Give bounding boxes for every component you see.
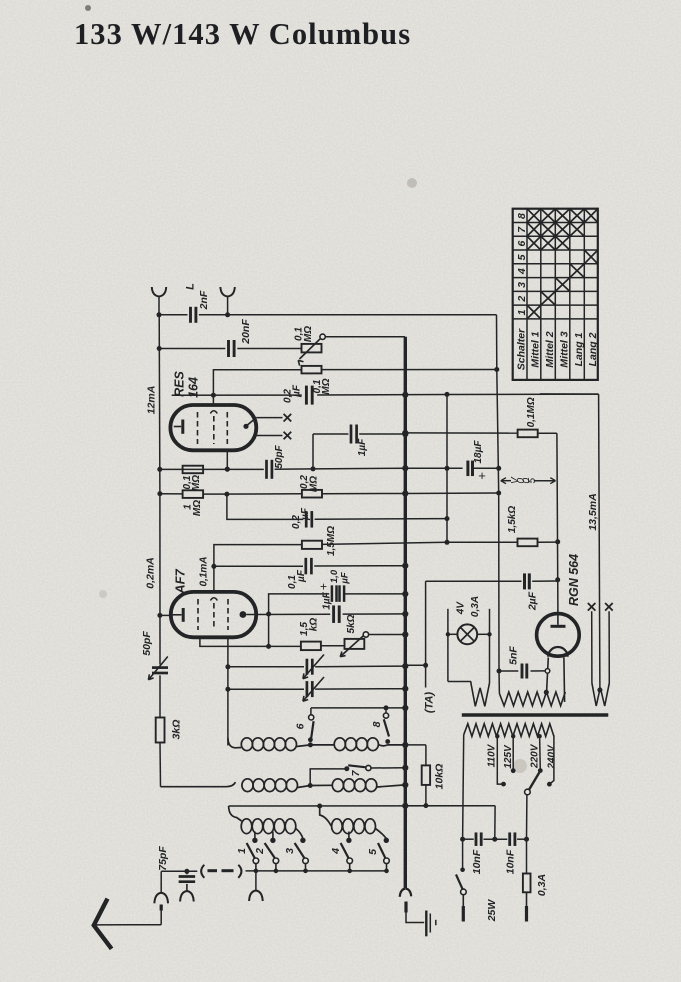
tap 240V xyxy=(547,735,558,786)
svg-text:125V: 125V xyxy=(503,744,514,769)
svg-text:MΩ: MΩ xyxy=(309,476,320,492)
capacitor 0,1µF xyxy=(287,558,311,589)
wire antenna top xyxy=(157,312,497,317)
switch 8 xyxy=(371,708,390,744)
svg-text:MΩ: MΩ xyxy=(192,500,203,516)
svg-text:0,2mA: 0,2mA xyxy=(145,557,157,589)
winding HT secondary xyxy=(499,690,565,706)
antenna arrow xyxy=(94,899,112,949)
svg-text:50pF: 50pF xyxy=(274,444,285,468)
wire grid2 row xyxy=(227,494,447,519)
ground plug xyxy=(406,902,424,923)
lamp 4V 0,3A xyxy=(456,596,482,644)
svg-text:MΩ: MΩ xyxy=(303,326,314,342)
heater lead x1 xyxy=(256,414,291,422)
capacitor 1,0µF electrolytic xyxy=(320,569,351,602)
svg-text:1µF: 1µF xyxy=(357,438,368,456)
svg-text:2: 2 xyxy=(516,296,528,303)
wire detector row xyxy=(229,803,496,809)
svg-text:MΩ: MΩ xyxy=(191,475,202,491)
earth socket xyxy=(255,871,257,890)
switch 1 xyxy=(236,832,259,874)
wire 0,1MΩ feed xyxy=(402,430,517,436)
band switch table xyxy=(513,209,599,380)
svg-text:13,5mA: 13,5mA xyxy=(587,493,599,530)
resistor 1,5kΩ bias xyxy=(299,618,321,650)
capacitor 1µF coupling xyxy=(351,425,368,457)
ground symbol xyxy=(426,911,436,937)
resistor 0,2MΩ xyxy=(299,475,322,498)
resistor 0,1MΩ decoupling xyxy=(182,466,203,491)
wire 544 row xyxy=(211,542,557,592)
coil antenna A2 xyxy=(308,738,409,751)
svg-text:5nF: 5nF xyxy=(508,646,520,665)
svg-text:3kΩ: 3kΩ xyxy=(171,720,183,740)
title 133 W/143 W Columbus xyxy=(74,17,411,51)
resistor 0,1MΩ supply xyxy=(518,397,538,437)
svg-text:Mittel 3: Mittel 3 xyxy=(558,331,570,367)
wire switch top row xyxy=(311,705,409,711)
svg-text:10nF: 10nF xyxy=(505,849,517,874)
wire HT rail xyxy=(496,370,501,694)
resistor 0,1MΩ grid xyxy=(302,366,333,395)
transformer core xyxy=(462,713,609,717)
wire mains row xyxy=(460,837,529,842)
wire left rail xyxy=(157,315,162,787)
label 0,1mA xyxy=(199,556,210,586)
wire grid RES164 xyxy=(211,370,497,405)
socket A fork xyxy=(154,871,168,903)
svg-text:50pF: 50pF xyxy=(141,631,153,656)
coil C1 xyxy=(229,806,303,839)
svg-text:4V: 4V xyxy=(456,601,467,616)
switch 3 xyxy=(284,838,308,874)
tap 220V selector xyxy=(525,734,543,839)
switch 7 xyxy=(310,765,408,786)
capacitor 0,2µF grid xyxy=(291,507,312,529)
svg-text:0,1MΩ: 0,1MΩ xyxy=(526,397,537,427)
svg-text:8: 8 xyxy=(371,721,383,727)
svg-text:164: 164 xyxy=(187,377,201,398)
svg-text:(TA): (TA) xyxy=(424,692,436,714)
svg-text:0,3A: 0,3A xyxy=(470,596,481,617)
svg-text:Mittel 1: Mittel 1 xyxy=(530,331,542,367)
coil B1 xyxy=(161,779,311,792)
svg-text:220V: 220V xyxy=(530,743,541,769)
tap 125V xyxy=(503,734,515,773)
svg-text:L: L xyxy=(185,283,197,290)
svg-text:1µF: 1µF xyxy=(322,591,333,609)
svg-text:Schalter: Schalter xyxy=(516,328,528,370)
filament leads xyxy=(544,658,565,703)
wire cathode RES164 xyxy=(225,450,230,471)
socket A2 fork xyxy=(180,891,194,902)
svg-text:1,0: 1,0 xyxy=(329,569,340,583)
antenna socket left xyxy=(152,287,166,315)
capacitor 20nF xyxy=(229,319,253,357)
switch 5 xyxy=(367,838,389,874)
svg-text:4: 4 xyxy=(516,268,528,275)
capacitor 18µF xyxy=(468,440,486,483)
svg-text:4: 4 xyxy=(330,848,342,855)
svg-text:µF: µF xyxy=(300,507,311,521)
wire right drop xyxy=(494,315,499,372)
svg-text:6: 6 xyxy=(295,723,307,729)
svg-text:18µF: 18µF xyxy=(473,440,484,464)
svg-text:5: 5 xyxy=(516,254,528,260)
label 12mA xyxy=(146,386,158,415)
coil antenna A1 xyxy=(228,738,311,751)
wire screen rail xyxy=(225,637,230,745)
svg-text:10kΩ: 10kΩ xyxy=(434,764,446,790)
wire antenna plug xyxy=(95,905,162,925)
svg-text:1,5kΩ: 1,5kΩ xyxy=(507,506,518,533)
wire 1µF link xyxy=(313,431,408,469)
svg-text:12mA: 12mA xyxy=(146,386,158,415)
svg-text:20nF: 20nF xyxy=(240,319,252,345)
svg-text:133 W/143 W Columbus: 133 W/143 W Columbus xyxy=(74,17,411,51)
wire wiper to bus xyxy=(325,336,405,338)
capacitor 75pF xyxy=(157,846,195,891)
wire anode AF7 xyxy=(246,611,408,617)
svg-text:RGN 564: RGN 564 xyxy=(567,554,581,606)
ground bus xyxy=(404,337,407,889)
wire 594 row xyxy=(266,591,408,617)
heater continuation x1 xyxy=(588,603,596,683)
svg-text:10nF: 10nF xyxy=(471,849,483,874)
svg-text:5kΩ: 5kΩ xyxy=(346,614,357,633)
wire cathode AF7 xyxy=(160,614,171,616)
svg-text:2nF: 2nF xyxy=(198,290,210,310)
winding arrows heater left xyxy=(471,682,490,707)
coil B2 xyxy=(308,779,409,792)
svg-text:6: 6 xyxy=(516,241,528,247)
variable capacitor tuning 1 xyxy=(228,655,409,679)
svg-text:µF: µF xyxy=(296,569,307,583)
coil C2 xyxy=(320,806,387,839)
bus socket fork xyxy=(400,888,412,896)
phono TA tap xyxy=(405,663,428,688)
svg-text:3: 3 xyxy=(284,848,296,854)
label 13,5mA xyxy=(587,493,599,530)
wire 75pF row xyxy=(161,869,197,874)
svg-text:+: + xyxy=(478,468,486,483)
svg-text:Mittel 2: Mittel 2 xyxy=(544,331,556,367)
resistor 10kΩ xyxy=(405,745,445,806)
svg-text:MΩ: MΩ xyxy=(321,378,332,394)
variable capacitor 50pF xyxy=(141,631,168,680)
earth socket fork xyxy=(249,891,263,902)
capacitor 50pF series xyxy=(267,444,286,478)
svg-text:+: + xyxy=(320,580,327,594)
svg-text:RES: RES xyxy=(173,370,187,396)
svg-text:Lang 2: Lang 2 xyxy=(587,332,599,366)
resistor 3kΩ xyxy=(156,718,183,743)
capacitor 1µF output xyxy=(322,591,340,623)
tube AF7 xyxy=(171,568,256,637)
switch 4 xyxy=(330,832,352,874)
capacitor 5nF xyxy=(499,646,545,679)
wire 566 row xyxy=(214,563,409,569)
svg-text:5: 5 xyxy=(367,849,379,855)
svg-text:µF: µF xyxy=(292,384,303,398)
svg-text:1,5MΩ: 1,5MΩ xyxy=(326,526,337,556)
capacitor 0,2µF anode xyxy=(283,384,313,404)
mains switch xyxy=(456,839,498,922)
svg-text:AF7: AF7 xyxy=(173,568,188,594)
heater lead x2 xyxy=(256,432,291,440)
wire anode rail RGN xyxy=(538,433,561,610)
wire mains feed xyxy=(405,806,495,840)
winding primary xyxy=(464,724,554,737)
capacitor 2nF xyxy=(191,290,211,323)
heater continuation x2 xyxy=(605,603,613,683)
svg-text:25W: 25W xyxy=(486,899,498,923)
wire 20nF row xyxy=(157,346,302,351)
capacitor 10nF right xyxy=(505,832,517,874)
tap 110V xyxy=(487,734,506,786)
wire heater rail xyxy=(540,394,602,693)
variable capacitor tuning 2 xyxy=(228,677,409,701)
switch 2 xyxy=(254,832,279,874)
capacitor 2µF xyxy=(525,573,557,611)
svg-text:110V: 110V xyxy=(487,743,498,767)
label 0,2mA xyxy=(145,557,157,589)
wire right mid rail xyxy=(445,394,450,544)
svg-text:2: 2 xyxy=(254,848,266,855)
switch linkage xyxy=(201,865,241,878)
wire 494 row xyxy=(160,490,499,496)
tube RGN 564 xyxy=(537,554,582,657)
resistor 1MΩ xyxy=(183,490,204,516)
svg-text:75pF: 75pF xyxy=(157,846,169,871)
svg-text:3: 3 xyxy=(516,282,528,288)
label 500V xyxy=(501,476,556,484)
svg-text:Lang 1: Lang 1 xyxy=(573,332,585,366)
label TA xyxy=(424,692,436,714)
svg-text:240V: 240V xyxy=(547,744,558,770)
resistor 1,5MΩ xyxy=(302,526,337,556)
svg-text:5: 5 xyxy=(527,477,538,483)
tube RES 164 xyxy=(170,370,256,450)
potentiometer 0,1MΩ xyxy=(294,326,326,366)
fuse 0,3A xyxy=(523,839,548,921)
svg-text:1: 1 xyxy=(516,309,528,315)
svg-text:8: 8 xyxy=(516,213,528,219)
wire switch bottom row xyxy=(246,870,387,872)
svg-text:2µF: 2µF xyxy=(527,591,539,611)
resistor 1,5kΩ smoothing xyxy=(507,506,537,547)
wire anode row xyxy=(172,392,599,398)
svg-text:1: 1 xyxy=(236,848,248,854)
switch 6 xyxy=(295,708,314,742)
winding arrows heater RGN xyxy=(592,683,609,706)
svg-text:0,1mA: 0,1mA xyxy=(199,556,210,586)
antenna socket right xyxy=(220,287,234,315)
capacitor 10nF left xyxy=(471,832,483,874)
lamp wiring xyxy=(446,609,492,683)
svg-text:kΩ: kΩ xyxy=(309,618,320,632)
svg-text:0,3A: 0,3A xyxy=(536,874,548,896)
wire 2µF feed xyxy=(426,581,522,665)
wire 469 row xyxy=(160,465,501,472)
label L xyxy=(185,283,197,290)
wire primary left xyxy=(463,735,464,839)
svg-text:µF: µF xyxy=(340,572,351,584)
rheostat 5kΩ xyxy=(321,614,409,656)
wire bias row xyxy=(200,614,301,649)
